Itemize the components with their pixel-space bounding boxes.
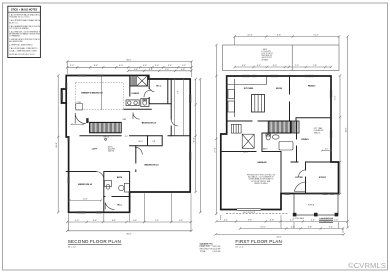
svg-text:LOCAL + STATE BUILDING CODES: LOCAL + STATE BUILDING CODES: [9, 49, 37, 52]
hall bath walls: [66, 172, 129, 213]
svg-text:P.T. 2x8 JSTS: P.T. 2x8 JSTS: [262, 51, 271, 53]
bottom dims first floor: [214, 215, 348, 236]
fridge and oven: [228, 90, 235, 99]
front door arc: [294, 182, 306, 192]
attic access note: [108, 146, 116, 153]
svg-text:5'-0": 5'-0": [75, 220, 79, 222]
deck note text: [262, 49, 273, 62]
svg-text:15'-0": 15'-0": [260, 226, 266, 228]
svg-text:SQUARE FTG.: SQUARE FTG.: [200, 242, 214, 245]
svg-text:5'-0": 5'-0": [165, 69, 169, 71]
svg-text:4'-6": 4'-6": [291, 226, 295, 228]
svg-text:5'-4": 5'-4": [311, 219, 315, 221]
wall bedroom/bath divider: [129, 76, 131, 97]
svg-text:6'-0": 6'-0": [273, 65, 277, 67]
svg-text:SECOND FLOOR PLAN: SECOND FLOOR PLAN: [68, 239, 121, 244]
svg-text:NOTE: ALL CLG HTS 8'-0" U.N.O.: NOTE: ALL CLG HTS 8'-0" U.N.O.: [9, 53, 35, 56]
svg-text:TO FRAMING: TO FRAMING: [9, 35, 20, 38]
svg-text:7'-8": 7'-8": [313, 65, 317, 67]
bedroom2 left wall: [135, 146, 137, 172]
svg-text:@16" OC W/ 5/4: @16" OC W/ 5/4: [262, 53, 273, 55]
svg-text:BEDROOM #4: BEDROOM #4: [142, 121, 157, 124]
cond box: [76, 104, 83, 111]
svg-text:4'-4": 4'-4": [149, 69, 153, 71]
garage note paragraph: [247, 174, 276, 185]
top dimension row 2: [66, 66, 193, 68]
svg-text:3'-0": 3'-0": [155, 65, 159, 67]
svg-text:6'-4": 6'-4": [112, 220, 116, 222]
svg-text:O.BATH: O.BATH: [131, 92, 139, 95]
svg-text:38'-0": 38'-0": [126, 59, 132, 61]
left wall bump-out: [62, 89, 67, 103]
svg-text:6x6 POSTS TYP.: 6x6 POSTS TYP.: [321, 218, 334, 220]
svg-text:BEDROOM #2: BEDROOM #2: [144, 165, 159, 167]
mini dim study: [321, 150, 332, 152]
kitchen counters: [227, 76, 267, 117]
svg-text:W.I.C.: W.I.C.: [117, 204, 123, 206]
svg-text:DINING: DINING: [301, 139, 309, 141]
wic room: [149, 79, 171, 104]
svg-text:38'-8": 38'-8": [346, 127, 348, 132]
shower owners bath: [130, 76, 147, 86]
svg-text:5'-8": 5'-8": [133, 220, 137, 222]
door arc study: [299, 170, 306, 177]
svg-text:TOTAL: TOTAL: [200, 250, 207, 253]
interior dim bedroom3: [69, 199, 103, 201]
svg-text:W.I.C.: W.I.C.: [156, 85, 162, 87]
svg-text:AT 16" O.C.: AT 16" O.C.: [9, 21, 18, 24]
notes box: [8, 6, 42, 57]
right vertical dim lines: [195, 78, 202, 214]
deck dim row: [234, 66, 333, 68]
mid horizontal wall: [80, 135, 190, 137]
svg-text:RAIL: RAIL: [123, 118, 127, 121]
garage right wall: [280, 152, 282, 194]
svg-text:FIRST FLOOR PLAN: FIRST FLOOR PLAN: [235, 239, 282, 244]
powder bath room: [262, 121, 297, 162]
svg-text:5'-6": 5'-6": [179, 220, 183, 222]
outer walls second floor: [66, 76, 190, 213]
svg-text:17'-4": 17'-4": [334, 95, 336, 100]
windows first floor dark marks: [242, 75, 334, 195]
smoke detector: [105, 138, 107, 140]
bottom dim rows: [66, 193, 193, 232]
svg-text:PORCH: PORCH: [308, 205, 315, 207]
svg-text:KITCHEN: KITCHEN: [244, 88, 254, 90]
svg-text:SEE DTL: SEE DTL: [314, 132, 321, 134]
svg-text:ALL BEDROOMS: ALL BEDROOMS: [9, 40, 23, 43]
svg-text:26'-4": 26'-4": [194, 137, 196, 142]
left vertical dims: [215, 44, 217, 215]
wall kitchen/family: [289, 76, 291, 121]
mid wall first floor: [227, 118, 331, 121]
shower stall: [124, 184, 129, 193]
wic door arc: [105, 203, 114, 210]
svg-text:10'-4": 10'-4": [247, 34, 253, 36]
svg-text:4'-8": 4'-8": [270, 219, 274, 221]
wic bottom wall: [104, 196, 130, 198]
door arcs bath/wic: [144, 90, 151, 97]
svg-text:STUDS AT 16" O.C. U.N.O.: STUDS AT 16" O.C. U.N.O.: [9, 16, 30, 19]
garage door opening: [237, 209, 260, 214]
svg-text:2,535 SF: 2,535 SF: [213, 251, 222, 253]
svg-text:27'-8": 27'-8": [214, 147, 216, 153]
svg-text:BEDROOM #3: BEDROOM #3: [78, 184, 93, 186]
under stair closet: [292, 121, 300, 133]
door jamb: [86, 118, 88, 123]
svg-text:15'-4": 15'-4": [313, 34, 319, 36]
windows second floor dark marks: [61, 75, 192, 214]
svg-text:6'-8": 6'-8": [94, 65, 98, 67]
svg-text:3'-0": 3'-0": [125, 136, 129, 138]
svg-text:DECK BDS ON: DECK BDS ON: [262, 55, 272, 57]
svg-text:STICK + BUILD NOTES: STICK + BUILD NOTES: [11, 9, 38, 12]
driveway dashed: [226, 213, 288, 215]
door arc loft/bed2: [135, 147, 142, 154]
svg-text:5'-6": 5'-6": [168, 65, 172, 67]
vanity two sinks: [126, 100, 139, 106]
svg-text:4'-4": 4'-4": [224, 219, 228, 221]
svg-text:5'-0": 5'-0": [334, 219, 338, 221]
svg-text:STUDY: STUDY: [319, 177, 327, 179]
svg-text:OWNER'S BEDROOM: OWNER'S BEDROOM: [81, 93, 103, 95]
door arc hall: [75, 113, 86, 124]
svg-text:LIN.: LIN.: [153, 141, 157, 143]
deck: [223, 45, 340, 71]
garage top wall: [221, 151, 281, 153]
water closet toilet: [141, 98, 149, 106]
svg-text:NOOK: NOOK: [276, 88, 283, 90]
svg-text:4'-4": 4'-4": [257, 65, 261, 67]
svg-text:5'-2": 5'-2": [182, 65, 186, 67]
svg-text:28'-0": 28'-0": [56, 142, 58, 148]
porch step: [319, 219, 333, 223]
svg-text:7'-2": 7'-2": [295, 65, 299, 67]
svg-text:GARAGE: GARAGE: [257, 161, 267, 164]
island: [252, 95, 265, 113]
svg-text:4'-0": 4'-0": [325, 149, 329, 151]
svg-text:1/2" PLYWOOD SPACER: 1/2" PLYWOOD SPACER: [9, 27, 29, 30]
bath bottom wall: [124, 108, 151, 110]
svg-text:W.I.C.: W.I.C.: [139, 141, 144, 143]
svg-text:7'-4": 7'-4": [155, 220, 159, 222]
svg-text:6'-0": 6'-0": [119, 65, 123, 67]
top dim row 3 short: [127, 70, 193, 72]
svg-text:11'-4": 11'-4": [83, 199, 88, 201]
svg-text:FAMILY: FAMILY: [308, 84, 316, 87]
svg-text:7'-4": 7'-4": [329, 226, 333, 228]
svg-text:6. VERIFY ALL DIMS IN FIELD: 6. VERIFY ALL DIMS IN FIELD: [9, 44, 33, 47]
svg-text:VERIFY IN FIELD: VERIFY IN FIELD: [254, 183, 268, 185]
beam line: [100, 76, 102, 110]
svg-text:9'-8": 9'-8": [248, 219, 252, 221]
outer walls first floor: [221, 76, 339, 210]
svg-text:BATH: BATH: [117, 176, 123, 179]
svg-text:5'-0": 5'-0": [70, 65, 74, 67]
svg-text:6'-8": 6'-8": [308, 226, 312, 228]
svg-text:1/4" = 1'-0": 1/4" = 1'-0": [235, 246, 244, 248]
laundry box: [242, 134, 254, 148]
closets center: [130, 136, 163, 146]
area table: [200, 242, 222, 253]
svg-text:FOYER: FOYER: [295, 177, 303, 179]
stairs second floor: [90, 122, 122, 132]
svg-text:9'-6": 9'-6": [177, 90, 179, 94]
svg-text:1/4" = 1'-0": 1/4" = 1'-0": [68, 246, 77, 248]
svg-text:DECK: DECK: [263, 49, 267, 51]
owners bedroom dashed ceiling break: [75, 83, 123, 110]
svg-text:5'-0": 5'-0": [290, 219, 294, 221]
porch: [293, 194, 338, 217]
svg-text:4'-6": 4'-6": [143, 65, 147, 67]
svg-text:4'-8": 4'-8": [134, 69, 138, 71]
svg-text:6'-4": 6'-4": [242, 65, 246, 67]
svg-text:©CVRMLS: ©CVRMLS: [348, 261, 386, 270]
svg-text:8'-8": 8'-8": [277, 34, 281, 36]
stairs first floor: [268, 121, 291, 133]
svg-text:4'-6": 4'-6": [93, 220, 97, 222]
svg-text:4x4 PT POSTS: 4x4 PT POSTS: [262, 57, 272, 59]
wall dining/study: [291, 162, 331, 194]
pantry shelves: [231, 124, 241, 133]
left vertical dim lines: [57, 74, 64, 213]
mini dim hall door: [71, 124, 85, 126]
svg-text:4'-8": 4'-8": [181, 69, 185, 71]
top dimension row 1: [66, 60, 193, 77]
right vertical dims: [339, 35, 349, 229]
svg-text:38'-0": 38'-0": [126, 234, 132, 236]
svg-text:ABOVE: ABOVE: [108, 150, 115, 153]
top dim row: [234, 35, 341, 45]
svg-text:LOFT: LOFT: [92, 148, 98, 150]
